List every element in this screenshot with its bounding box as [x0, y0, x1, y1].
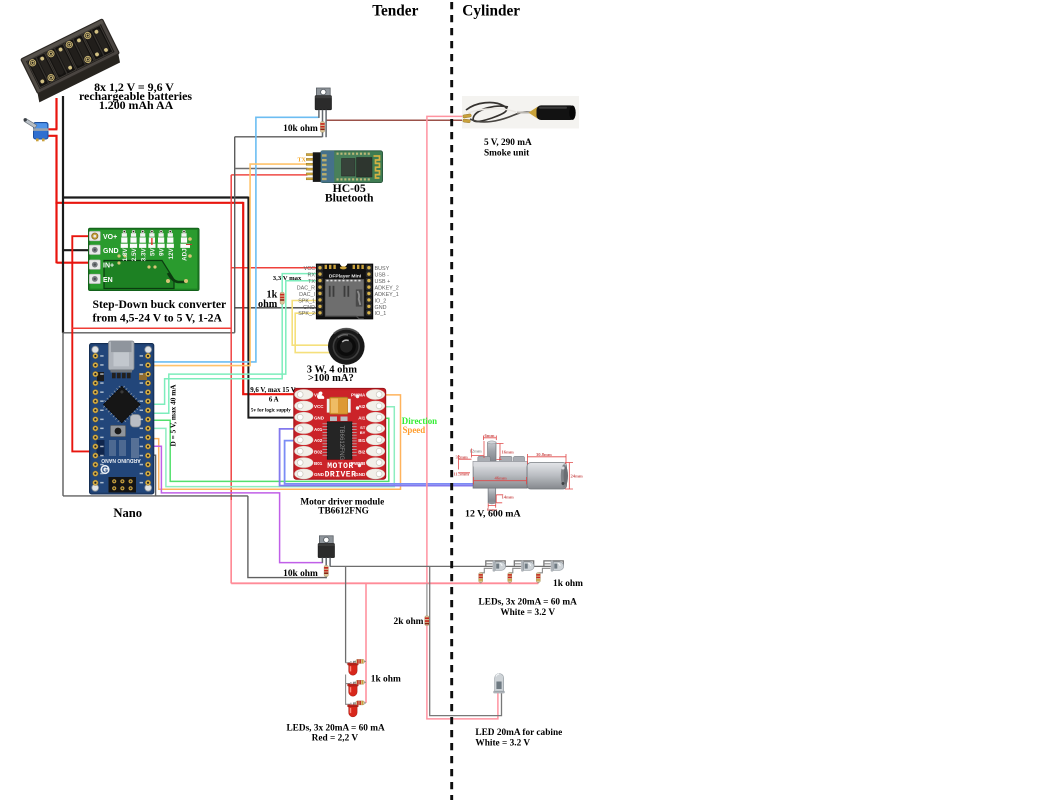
- buck pad EN: [89, 274, 100, 283]
- wire red to HC-05 VCC: [231, 174, 307, 176]
- svg-text:DFPlayer Mini: DFPlayer Mini: [329, 273, 362, 279]
- svg-text:ADJ: ADJ: [182, 248, 189, 261]
- speaker 3W 4ohm: [328, 328, 365, 365]
- driver pad BI2 (right): [366, 446, 384, 456]
- motor dimension lines: [458, 436, 573, 508]
- svg-text:Tender: Tender: [372, 2, 418, 19]
- svg-text:1k ohm: 1k ohm: [371, 675, 401, 685]
- transistor Q1 legs: [318, 110, 320, 118]
- DFPlayer pin ADKEY_2 (right): [366, 284, 372, 290]
- svg-text:DRIVER: DRIVER: [325, 471, 357, 480]
- driver pad PWMB (right): [366, 458, 384, 468]
- svg-text:5V: 5V: [150, 248, 157, 257]
- svg-text:12mm: 12mm: [470, 449, 482, 454]
- resistor R4 10k base Q2: [324, 565, 328, 576]
- resistor R1 10k base Q1: [320, 122, 324, 133]
- LED red 1 (red): [347, 661, 358, 675]
- wire purple nano to transistor Q2: [152, 446, 323, 562]
- wire blue nano D to Q1: [152, 117, 319, 362]
- smoke unit photo: [462, 96, 579, 129]
- DFPlayer pin GND (left): [317, 304, 323, 310]
- svg-text:14mm: 14mm: [502, 495, 514, 500]
- svg-text:IO_2: IO_2: [375, 298, 387, 304]
- buck jumper 1.8V: [123, 230, 126, 233]
- svg-text:30.8mm: 30.8mm: [536, 452, 552, 457]
- driver pad AI2 (right): [366, 401, 384, 411]
- svg-text:USB -: USB -: [375, 273, 390, 279]
- wire red buck VO+ output: [72, 236, 92, 451]
- driver pad AI1 (right): [366, 412, 384, 422]
- svg-text:Nano: Nano: [113, 506, 142, 520]
- wire white LED 2 legs: [509, 564, 521, 573]
- svg-text:3,3 V max: 3,3 V max: [273, 275, 302, 282]
- wire black to driver GND: [248, 197, 298, 418]
- svg-text:5 V, 290 mA: 5 V, 290 mA: [484, 138, 532, 148]
- wire grey nano ground to Q2 resistor: [63, 455, 327, 577]
- svg-text:12 V, 600 mA: 12 V, 600 mA: [465, 509, 521, 520]
- svg-text:46mm: 46mm: [495, 476, 507, 481]
- nano pin rows: [93, 353, 98, 358]
- buck jumper 9V: [160, 230, 163, 233]
- wire orange nano to HC-05: [152, 164, 308, 366]
- wire pink 5V lower segment: [230, 500, 232, 583]
- svg-text:2.5V: 2.5V: [131, 248, 138, 262]
- svg-text:DAC_R: DAC_R: [297, 285, 315, 291]
- driver pad PWMA (right): [366, 390, 384, 400]
- svg-text:1.8V: 1.8V: [122, 248, 129, 262]
- resistor R11 1k white LED3: [536, 573, 540, 583]
- svg-text:A01: A01: [314, 427, 323, 432]
- wire red to DFPlayer VCC: [231, 267, 319, 269]
- resistor R8 1k LED3: [356, 701, 365, 705]
- svg-text:LED 20mA for cabine: LED 20mA for cabine: [475, 728, 562, 738]
- driver pad GND (left): [295, 469, 313, 479]
- wire pink 2k to cabin LED: [427, 625, 498, 719]
- resistor R5 2k cabin LED: [425, 616, 429, 626]
- wire dark grey to DFPlayer GND: [235, 307, 319, 309]
- wire pink 5V LED bus: [231, 582, 538, 584]
- svg-text:ADKEY_2: ADKEY_2: [375, 285, 399, 291]
- DFPlayer pin BUSY (right): [366, 265, 372, 271]
- DFPlayer pin IO_1 (right): [366, 310, 372, 316]
- driver pad VCC (left): [295, 401, 313, 411]
- LED white 1 (white, horizontal): [493, 561, 506, 572]
- wire green nano to driver AI1: [152, 418, 389, 481]
- buck pad GND: [89, 245, 100, 254]
- wire white LED 2 resistor stub: [509, 573, 511, 584]
- wire white LED 3 resistor stub: [537, 573, 539, 584]
- DFPlayer pin ADKEY_1 (right): [366, 291, 372, 297]
- svg-text:16mm: 16mm: [502, 450, 514, 455]
- svg-text:GND: GND: [355, 472, 366, 477]
- svg-text:32mm: 32mm: [456, 454, 468, 459]
- wire grey to HC-05 GND: [235, 168, 308, 170]
- svg-text:12V: 12V: [168, 248, 175, 260]
- svg-text:ADKEY_1: ADKEY_1: [375, 292, 399, 298]
- step-down buck converter module: [89, 228, 200, 290]
- wire red branch to motor VM bus: [55, 202, 243, 204]
- svg-text:USB +: USB +: [375, 279, 391, 285]
- svg-text:10k ohm: 10k ohm: [283, 124, 318, 134]
- svg-text:MOTOR: MOTOR: [327, 462, 354, 471]
- gear motor 12V: [473, 441, 568, 504]
- driver pad VM (left): [295, 390, 313, 400]
- svg-text:10k ohm: 10k ohm: [283, 569, 318, 579]
- DFPlayer pin SPK_2 (left): [317, 310, 323, 316]
- svg-text:EN: EN: [103, 277, 113, 284]
- LED white 3 (white, horizontal): [551, 561, 564, 572]
- svg-text:ohm: ohm: [258, 299, 278, 310]
- resistor R9 1k white LED1: [479, 573, 483, 583]
- svg-text:PWMA: PWMA: [351, 393, 366, 398]
- transistor Q1 smoke driver (TO-220): [315, 88, 331, 110]
- svg-text:3.3V: 3.3V: [140, 248, 147, 262]
- svg-text:from 4,5-24 V to 5 V, 1-2A: from 4,5-24 V to 5 V, 1-2A: [93, 311, 223, 324]
- buck jumper 12V: [169, 230, 172, 233]
- wire grey to transistor Q1 resistor: [235, 136, 323, 138]
- wire brown Q1 to smoke unit: [326, 119, 464, 121]
- svg-text:Step-Down buck converter: Step-Down buck converter: [93, 298, 227, 311]
- driver pad B01 (left): [295, 458, 313, 468]
- arduino Nano board: [90, 341, 154, 494]
- buck jumper 5V: [150, 230, 153, 233]
- buck jumper 3.3V: [141, 230, 144, 233]
- svg-text:AI2: AI2: [358, 404, 366, 409]
- svg-text:VM: VM: [314, 393, 321, 398]
- svg-text:BY: BY: [360, 430, 366, 435]
- driver pad STBY (right): [366, 424, 384, 434]
- buck jumper 2.5V: [132, 230, 135, 233]
- resistor R10 1k white LED2: [508, 573, 512, 583]
- svg-text:BI1: BI1: [358, 438, 366, 443]
- wire red LED 3 resistor stub: [354, 703, 367, 707]
- svg-text:Bluetooth: Bluetooth: [325, 192, 374, 205]
- wire white LED 1 legs: [481, 564, 493, 573]
- buck jumper select red mark: [151, 238, 153, 245]
- wire white LED 1 hop: [486, 561, 505, 567]
- svg-text:TB6612FNG: TB6612FNG: [318, 506, 369, 516]
- svg-text:5v for logic supply: 5v for logic supply: [251, 407, 291, 413]
- buck pad IN+: [89, 260, 100, 269]
- svg-text:RX: RX: [308, 273, 316, 279]
- wire red LED chain links: [346, 663, 350, 705]
- DFPlayer pin TX (left): [317, 278, 323, 284]
- wire grey ground down left side: [62, 333, 64, 496]
- wire grey ground bus horizontal: [63, 332, 235, 334]
- svg-text:ARDUINO NANO: ARDUINO NANO: [101, 457, 141, 463]
- divider dashed line Tender/Cylinder: [450, 2, 453, 800]
- resistor R3 1k on RX line: [280, 292, 284, 304]
- LED red 2 (red): [347, 682, 358, 696]
- svg-text:GND: GND: [314, 472, 325, 477]
- wire pink 5V to smoke unit: [427, 116, 465, 583]
- DFPlayer pin RX (left): [317, 271, 323, 277]
- wire red to driver VM: [243, 202, 298, 394]
- svg-text:SPK_2: SPK_2: [298, 311, 315, 317]
- svg-text:>100 mA?: >100 mA?: [308, 373, 354, 384]
- motor driver module TB6612FNG: [294, 388, 386, 479]
- bluetooth module HC-05: [306, 151, 382, 183]
- wire mint DFPlayer RX to nano: [152, 274, 319, 405]
- wire grey 2k feed stub: [426, 583, 428, 616]
- wire grey LED bus to cabin LED: [430, 566, 502, 715]
- driver pad GND (left): [295, 412, 313, 422]
- DFPlayer pin IO_2 (right): [366, 297, 372, 303]
- resistor R6 1k LED1: [356, 659, 365, 663]
- resistor R7 1k LED2: [356, 680, 365, 684]
- buck pad VO+: [89, 231, 100, 240]
- svg-text:D = 5 V, max 40 mA: D = 5 V, max 40 mA: [169, 384, 178, 447]
- wire white LED 3 legs: [539, 564, 551, 573]
- wire black branch to driver GND bus: [62, 196, 248, 198]
- DFPlayer pin GND (right): [366, 304, 372, 310]
- wire red 5V vertical bus: [230, 175, 232, 583]
- wire red 5V branch right: [72, 327, 231, 329]
- DFPlayer pin SPK_1 (left): [317, 297, 323, 303]
- wire violet driver A01 to motor: [280, 429, 475, 486]
- wire black battery -: [62, 96, 64, 333]
- DFPlayer pin DAC_R (left): [317, 284, 323, 290]
- svg-text:VCC: VCC: [314, 404, 324, 409]
- wire red into buck IN+: [57, 262, 93, 264]
- svg-text:IN+: IN+: [103, 263, 114, 270]
- wire mint nano to driver AI2: [152, 407, 394, 487]
- svg-text:VO+: VO+: [103, 234, 117, 241]
- svg-text:Red = 2,2 V: Red = 2,2 V: [312, 734, 359, 744]
- wire orange nano to driver PWMA: [152, 395, 401, 489]
- svg-text:2k ohm: 2k ohm: [394, 617, 424, 627]
- driver pad A01 (left): [295, 424, 313, 434]
- LED red 3 (red): [347, 703, 358, 717]
- buck jumper ADJ: [182, 230, 185, 233]
- DFPlayer pin VCC (left): [317, 265, 323, 271]
- wire grey drop to red LED chain: [345, 566, 347, 662]
- wire blue driver A02 to motor: [285, 441, 475, 484]
- wire white LED 2 hop: [514, 561, 533, 567]
- svg-text:TX: TX: [308, 279, 315, 285]
- DFPlayer pin DAC_I (left): [317, 291, 323, 297]
- transistor Q2 legs: [321, 558, 323, 563]
- toggle switch S1: [24, 118, 49, 141]
- svg-text:PWMB: PWMB: [351, 461, 366, 466]
- svg-text:White = 3.2 V: White = 3.2 V: [500, 608, 555, 618]
- svg-text:DAC_I: DAC_I: [299, 292, 315, 298]
- LED white 2 (white, horizontal): [521, 561, 534, 572]
- svg-text:GND: GND: [314, 415, 325, 420]
- svg-text:TB6612FNG: TB6612FNG: [338, 426, 345, 461]
- wire white LED 1 resistor stub: [480, 573, 482, 584]
- wire red LED 2 resistor stub: [354, 682, 367, 686]
- wire red LED 1 resistor stub: [354, 661, 367, 665]
- wire mint DFPlayer TX to nano: [152, 281, 319, 414]
- driver pad GND (right): [366, 469, 384, 479]
- svg-text:GND: GND: [303, 305, 315, 311]
- audio module DFPlayer Mini: [316, 264, 373, 319]
- DFPlayer pin USB - (right): [366, 271, 372, 277]
- svg-text:AI1: AI1: [358, 415, 366, 420]
- svg-text:GND: GND: [103, 248, 119, 255]
- svg-text:BI2: BI2: [358, 449, 366, 454]
- wire black into buck GND: [63, 249, 92, 251]
- wire yellow SPK_2 to speaker: [295, 313, 331, 352]
- svg-text:24mm: 24mm: [571, 474, 583, 479]
- svg-text:6 A: 6 A: [269, 397, 279, 404]
- svg-text:TX: TX: [298, 158, 307, 164]
- svg-text:9V: 9V: [159, 248, 166, 257]
- wire yellow SPK_1 to speaker: [292, 301, 330, 346]
- driver pad BI1 (right): [366, 435, 384, 445]
- wire red battery + to switch: [47, 98, 57, 263]
- DFPlayer pin USB + (right): [366, 278, 372, 284]
- svg-text:LEDs, 3x 20mA = 60 mA: LEDs, 3x 20mA = 60 mA: [286, 723, 385, 733]
- LED cabin (white, vertical): [493, 674, 505, 694]
- wire grey Q2 collector LED bus: [330, 565, 563, 567]
- svg-text:Smoke unit: Smoke unit: [484, 148, 530, 158]
- driver pad B02 (left): [295, 446, 313, 456]
- svg-text:Cylinder: Cylinder: [462, 2, 520, 19]
- wire white LED 3 hop: [544, 561, 563, 567]
- svg-text:9,6 V, max 15 V: 9,6 V, max 15 V: [250, 387, 296, 394]
- svg-text:VCC: VCC: [304, 266, 315, 272]
- battery holder 8x AA: [18, 19, 123, 103]
- svg-text:B02: B02: [314, 449, 323, 454]
- svg-text:1k ohm: 1k ohm: [553, 579, 583, 589]
- svg-text:1.200 mAh AA: 1.200 mAh AA: [99, 98, 174, 112]
- svg-text:B01: B01: [314, 461, 323, 466]
- svg-text:SPK_1: SPK_1: [298, 298, 315, 304]
- transistor Q2 LED driver (TO-220): [318, 536, 334, 558]
- svg-text:LEDs, 3x 20mA = 60 mA: LEDs, 3x 20mA = 60 mA: [479, 598, 578, 608]
- svg-text:11.5mm: 11.5mm: [454, 472, 470, 477]
- svg-text:White = 3.2 V: White = 3.2 V: [475, 738, 530, 748]
- svg-text:IO_1: IO_1: [375, 311, 387, 317]
- svg-text:Speed: Speed: [403, 425, 426, 435]
- driver pad A02 (left): [295, 435, 313, 445]
- wire grey ground bus vertical: [234, 137, 236, 333]
- wire pink resistor rail red LEDs: [365, 583, 367, 703]
- svg-text:GND: GND: [375, 305, 387, 311]
- svg-text:BUSY: BUSY: [375, 266, 390, 272]
- svg-text:6mm: 6mm: [485, 433, 495, 438]
- svg-text:A02: A02: [314, 438, 323, 443]
